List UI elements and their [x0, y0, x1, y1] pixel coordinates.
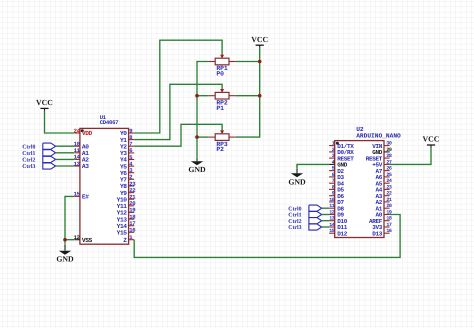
net flag Ctrl1 [288, 211, 321, 218]
svg-text:VCC: VCC [36, 98, 53, 107]
wire Ctrl3 flag to U2 D11 [322, 226, 329, 228]
U1 pin 3 Y6 [120, 167, 134, 177]
svg-text:16: 16 [386, 228, 392, 234]
svg-text:D12: D12 [337, 230, 348, 237]
svg-text:16: 16 [129, 227, 136, 234]
U2 pin 6 D3 [329, 172, 344, 181]
svg-text:12: 12 [329, 210, 335, 216]
svg-text:Ctrl3: Ctrl3 [22, 163, 35, 170]
U1 pin 20 Y11 [117, 200, 137, 210]
svg-text:26: 26 [386, 166, 392, 172]
U2 pin 1 D1/TX [329, 141, 354, 150]
U2 pin 13 D10 [329, 216, 348, 225]
wire U1 Y1 to RP2 wiper [134, 84, 222, 139]
wire Ctrl1 flag to U1 A1 [56, 152, 75, 154]
power symbol VCC (top right, resistor pull-ups) [251, 35, 268, 48]
U2 value ARDUINO_NANO [356, 132, 401, 139]
U2 pin 27 +5V [372, 159, 392, 168]
U2 pin 11 D8 [329, 203, 344, 212]
U2 pin 14 D11 [329, 222, 348, 231]
U2 pin 25 A6 [375, 172, 391, 181]
wire U1 Y0 to RP1 wiper [134, 40, 222, 133]
U1 pin 23 Y8 [120, 180, 136, 190]
svg-text:VCC: VCC [251, 35, 268, 44]
U1 pin 7 Y2 [120, 141, 134, 151]
svg-text:29: 29 [386, 147, 392, 153]
U1 pin 2 Y7 [120, 174, 134, 184]
svg-text:Ctrl2: Ctrl2 [288, 218, 301, 225]
wire Ctrl2 flag to U1 A2 [56, 158, 75, 160]
svg-text:Ctrl0: Ctrl0 [22, 143, 35, 150]
U2 pin 16 D13 [372, 228, 392, 237]
svg-text:12: 12 [74, 234, 81, 241]
U1 pin 22 Y9 [120, 187, 136, 197]
wire VCC to U2 +5V pin 27 [390, 147, 431, 164]
svg-text:Ctrl1: Ctrl1 [22, 150, 35, 157]
U1 pin 17 Y14 [117, 220, 136, 230]
svg-text:15: 15 [329, 228, 335, 234]
wire branch to RP3 left terminal [197, 136, 208, 138]
svg-text:VDD: VDD [82, 130, 93, 137]
svg-text:13: 13 [329, 216, 335, 222]
U2 pin 3 RESET [329, 153, 354, 162]
U1 pin 10 A0 [74, 141, 90, 151]
junction RP2 left terminal node [195, 94, 199, 98]
svg-text:25: 25 [386, 172, 392, 178]
U2 pin 23 A4 [375, 184, 391, 193]
U2 pin 19 A0 [375, 210, 391, 219]
RP1 value label P0 [216, 71, 224, 78]
net flag Ctrl2 [22, 156, 55, 163]
junction RP1 right terminal on VCC rail [258, 60, 262, 64]
U1 pin 24 VDD [74, 127, 93, 137]
svg-text:24: 24 [386, 178, 392, 184]
svg-text:17: 17 [386, 222, 392, 228]
wire RP1/RP2/RP3 left terminals common to GND [197, 62, 208, 156]
resistor RP1 (P0) trimmer [208, 54, 235, 65]
svg-text:P1: P1 [216, 105, 224, 112]
svg-text:22: 22 [386, 191, 392, 197]
junction VSS/E#/GND node [63, 238, 67, 242]
U1 pin 4 Y5 [120, 160, 134, 170]
wire Ctrl3 flag to U1 A3 [56, 165, 75, 167]
RP1 reference label [216, 65, 227, 72]
RP3 value label P2 [216, 146, 224, 153]
U2 pin 26 A7 [375, 166, 391, 175]
U2 pin 4 GND [329, 159, 348, 168]
svg-text:ARDUINO_NANO: ARDUINO_NANO [356, 132, 401, 139]
wire Ctrl0 flag to U2 D8 [322, 207, 329, 209]
junction RP2 right terminal on VCC rail [258, 94, 262, 98]
svg-text:Ctrl0: Ctrl0 [288, 205, 301, 212]
U1 pin 12 VSS [74, 234, 93, 244]
svg-text:18: 18 [386, 216, 392, 222]
U2 pin 9 D6 [329, 191, 344, 200]
svg-text:28: 28 [386, 153, 392, 159]
ground symbol GND (left of U2) [288, 164, 306, 186]
net flag Ctrl3 [22, 163, 55, 170]
wire U1 Z pin 1 to U2 A0 pin 19 [134, 215, 400, 258]
net flag Ctrl2 [288, 218, 321, 225]
IC U2 ARDUINO_NANO body [335, 141, 384, 238]
wire U1 E# to ground net [65, 196, 74, 239]
svg-text:Ctrl3: Ctrl3 [288, 224, 301, 231]
U2 pin 28 RESET [366, 153, 392, 162]
U2 pin 20 A1 [375, 203, 391, 212]
RP2 value label P1 [216, 105, 224, 112]
U1 pin 19 Y12 [117, 207, 137, 217]
wire VCC to U1 VDD pin 24 [45, 111, 75, 134]
power symbol VCC (right of U2) [423, 135, 440, 148]
svg-text:GND: GND [188, 165, 206, 174]
wire Ctrl0 flag to U1 A0 [56, 145, 75, 147]
U2 reference designator [356, 126, 364, 133]
U1 pin 11 A1 [74, 147, 90, 157]
svg-text:10: 10 [329, 197, 335, 203]
U2 pin 2 D0/RX [329, 147, 354, 156]
U2 pin 5 D2 [329, 166, 344, 175]
power symbol VCC (above U1) [36, 98, 53, 111]
U1 pin 1 Z [123, 234, 134, 244]
svg-text:11: 11 [329, 203, 335, 209]
svg-text:23: 23 [386, 184, 392, 190]
U1 reference designator [100, 114, 107, 121]
net flag Ctrl3 [288, 224, 321, 231]
svg-text:21: 21 [386, 197, 392, 203]
U2 pin 8 D5 [329, 184, 344, 193]
svg-text:P0: P0 [216, 71, 224, 78]
svg-text:14: 14 [329, 222, 335, 228]
net flag Ctrl0 [288, 205, 321, 212]
ground symbol GND (below U1 VSS) [56, 240, 74, 264]
U1 pin 16 Y15 [117, 227, 137, 237]
U2 pin 17 3V3 [372, 222, 392, 231]
U1 pin 18 Y13 [117, 213, 137, 223]
svg-text:24: 24 [74, 127, 81, 134]
svg-text:A3: A3 [82, 163, 89, 170]
resistor RP3 (P2) trimmer [208, 129, 235, 140]
wire U1 Y2 to RP3 wiper [134, 124, 222, 146]
wire RP2 right terminal to VCC rail [236, 95, 260, 97]
svg-text:CD4067: CD4067 [100, 119, 119, 126]
U2 pin 30 VIN [372, 141, 392, 150]
net flag Ctrl1 [22, 150, 55, 157]
wire VCC rail down right side of resistors [236, 47, 260, 137]
U1 pin 15 E# [74, 191, 90, 201]
ground symbol GND (below resistor commons) [188, 155, 206, 174]
U2 pin 15 D12 [329, 228, 348, 237]
RP3 reference label [216, 141, 227, 148]
U1 pin 6 Y3 [120, 147, 134, 157]
svg-text:Y15: Y15 [117, 230, 128, 237]
wire branch to RP2 left terminal [197, 95, 208, 97]
svg-text:E#: E# [82, 194, 89, 201]
U2 pin 10 D7 [329, 197, 344, 206]
U1 pin 9 Y0 [120, 127, 134, 137]
svg-text:GND: GND [288, 177, 306, 186]
RP2 reference label [216, 99, 227, 106]
svg-text:GND: GND [56, 255, 74, 264]
wire U2 GND pin 4 to ground [297, 164, 329, 167]
svg-text:P2: P2 [216, 146, 224, 153]
U2 pin 21 A2 [375, 197, 391, 206]
wire Ctrl2 flag to U2 D10 [322, 220, 329, 222]
U1 pin 21 Y10 [117, 194, 137, 204]
net flag Ctrl0 [22, 143, 55, 150]
wire RP1 right terminal to VCC rail [236, 61, 260, 63]
U1 pin 5 Y4 [120, 154, 134, 164]
svg-text:30: 30 [386, 141, 392, 147]
svg-text:D13: D13 [372, 230, 383, 237]
U2 pin 22 A3 [375, 191, 391, 200]
U1 pin 14 A2 [74, 154, 90, 164]
svg-text:VSS: VSS [82, 237, 93, 244]
svg-text:13: 13 [74, 160, 81, 167]
wire Ctrl1 flag to U2 D9 [322, 214, 329, 216]
svg-text:VCC: VCC [423, 135, 440, 144]
U2 pin 24 A5 [375, 178, 391, 187]
U2 pin 18 AREF [369, 216, 392, 225]
wire U1 VSS to ground net [65, 239, 74, 241]
U2 pin 12 D9 [329, 210, 344, 219]
svg-text:Ctrl2: Ctrl2 [22, 157, 35, 164]
junction RP3 left terminal node [195, 135, 199, 139]
U1 pin 13 A3 [74, 160, 90, 170]
svg-text:15: 15 [74, 191, 81, 198]
U2 pin 29 GND [372, 147, 392, 156]
svg-text:20: 20 [386, 203, 392, 209]
U1 pin 8 Y1 [120, 134, 134, 144]
svg-text:Ctrl1: Ctrl1 [288, 212, 301, 219]
U1 value CD4067 [100, 119, 119, 126]
U2 pin 7 D4 [329, 178, 344, 187]
IC U1 CD4067 multiplexer body [80, 128, 129, 244]
resistor RP2 (P1) trimmer [208, 88, 235, 99]
